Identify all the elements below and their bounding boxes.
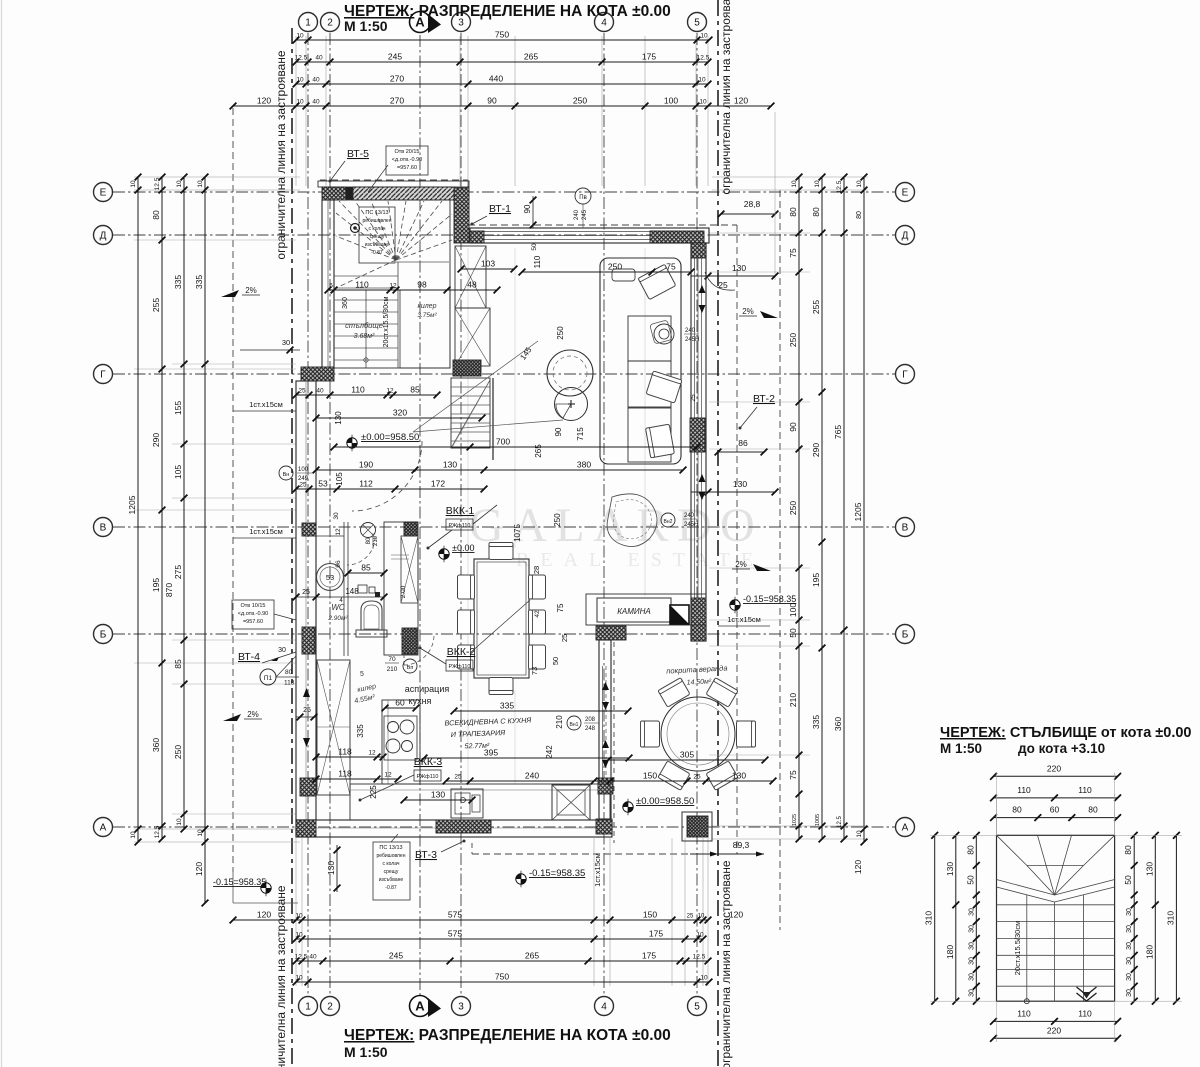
svg-text:1: 1	[305, 18, 311, 29]
svg-text:100: 100	[664, 96, 678, 106]
svg-text:25: 25	[560, 634, 569, 642]
piano shape	[607, 494, 657, 547]
vent circle Вн west	[279, 466, 312, 482]
stair detail walk circle	[1024, 999, 1029, 1004]
dim 395	[421, 748, 633, 762]
svg-text:10: 10	[130, 180, 137, 188]
svg-text:120: 120	[194, 862, 204, 876]
svg-text:М 1:50: М 1:50	[344, 1044, 388, 1060]
svg-text:110: 110	[533, 255, 542, 268]
label ВКК-2	[419, 600, 531, 671]
svg-text:<д.отв.-0.90: <д.отв.-0.90	[238, 611, 268, 617]
washbasin	[317, 564, 344, 591]
svg-text:90: 90	[554, 427, 563, 436]
svg-text:103: 103	[481, 259, 495, 269]
dim 60	[382, 698, 420, 712]
svg-text:210: 210	[373, 535, 379, 546]
fraction 70/210	[385, 656, 399, 673]
svg-text:245Н: 245Н	[684, 522, 698, 528]
svg-text:10: 10	[856, 180, 863, 188]
svg-text:255: 255	[151, 298, 161, 312]
svg-text:320: 320	[393, 408, 407, 418]
svg-text:Пв: Пв	[579, 195, 587, 201]
svg-text:750: 750	[495, 30, 509, 40]
svg-text:85: 85	[173, 659, 183, 669]
svg-text:190: 190	[359, 460, 373, 470]
dim 85	[345, 563, 388, 577]
projection lines	[413, 341, 563, 432]
svg-text:1025: 1025	[792, 814, 798, 826]
svg-text:50: 50	[551, 657, 560, 665]
svg-text:-0.15=958.35: -0.15=958.35	[743, 594, 796, 604]
svg-text:148: 148	[345, 587, 359, 596]
floor hatch box	[552, 785, 590, 820]
svg-text:до кота +3.10: до кота +3.10	[1018, 741, 1105, 756]
stair detail winder lines	[997, 835, 1115, 902]
svg-text:180: 180	[1144, 945, 1154, 959]
svg-text:245: 245	[388, 52, 402, 62]
svg-text:245: 245	[389, 951, 403, 961]
svg-text:28: 28	[532, 566, 541, 574]
dining chairs left	[458, 575, 475, 599]
svg-text:М 1:50: М 1:50	[344, 18, 388, 34]
stair detail outline	[997, 835, 1115, 1001]
elevation -0.15 bottom left	[213, 877, 271, 896]
kitchen counter west	[382, 700, 420, 784]
svg-text:250: 250	[573, 96, 587, 106]
svg-text:30: 30	[968, 989, 975, 997]
label 1st x15 left upper	[233, 400, 296, 411]
svg-text:3.68м²: 3.68м²	[354, 333, 375, 340]
svg-text:175: 175	[649, 929, 663, 939]
dim 130 bottom left vertical	[326, 845, 340, 892]
svg-text:10: 10	[295, 932, 303, 939]
svg-text:1ст.х15см: 1ст.х15см	[249, 527, 283, 536]
axis row А	[94, 818, 915, 837]
svg-text:40: 40	[312, 99, 320, 106]
veranda west pier	[598, 778, 613, 794]
vent dot stair	[351, 224, 360, 233]
svg-text:М 1:50: М 1:50	[940, 741, 982, 756]
extension lines right	[709, 177, 868, 839]
svg-text:5: 5	[360, 671, 364, 678]
dim 30 left axis G	[240, 338, 300, 353]
svg-text:335: 335	[811, 715, 821, 729]
svg-text:Вн: Вн	[283, 472, 290, 478]
svg-text:80: 80	[1088, 805, 1098, 815]
wall below fireplace	[596, 626, 626, 640]
svg-text:130: 130	[733, 479, 747, 489]
stair walk line	[364, 290, 368, 368]
section axis A line	[419, 35, 421, 995]
svg-text:12.5: 12.5	[295, 55, 308, 62]
label ВТ-1	[471, 203, 512, 226]
dimension row bottom 575-150	[230, 910, 744, 924]
extension lines left inner	[134, 240, 296, 814]
wall corner pier top	[454, 188, 469, 243]
svg-text:40: 40	[316, 388, 324, 395]
svg-text:85: 85	[361, 563, 371, 573]
elevation ±0.00=958.50 veranda	[623, 796, 695, 815]
svg-text:10: 10	[696, 932, 704, 939]
veranda west wall band	[599, 640, 611, 819]
wc unit shelves	[391, 555, 409, 559]
svg-text:3.75м²: 3.75м²	[417, 312, 437, 319]
svg-text:изсъбване: изсъбване	[379, 877, 404, 883]
svg-text:10: 10	[176, 818, 183, 826]
dining chairs right	[529, 575, 546, 599]
svg-text:210: 210	[387, 666, 398, 673]
fireplace circle big	[547, 350, 593, 396]
fireplace circle small	[555, 388, 588, 421]
svg-text:50: 50	[531, 243, 538, 251]
svg-text:250: 250	[788, 333, 798, 347]
svg-text:265: 265	[524, 52, 538, 62]
svg-text:изсъбване: изсъбване	[365, 242, 390, 248]
svg-text:Отв 10/15: Отв 10/15	[240, 603, 265, 609]
svg-text:210: 210	[788, 693, 798, 707]
svg-text:-0.15=958.35: -0.15=958.35	[213, 877, 266, 887]
slope 2% right upper	[739, 307, 778, 318]
svg-text:360: 360	[151, 738, 161, 752]
dim 25 west wall	[296, 707, 317, 720]
svg-text:1ст.х15см: 1ст.х15см	[727, 615, 761, 624]
svg-text:30: 30	[1126, 989, 1133, 997]
svg-text:110: 110	[355, 280, 369, 290]
svg-text:25: 25	[303, 707, 311, 714]
svg-text:20ст.х15.5/30см: 20ст.х15.5/30см	[383, 296, 390, 347]
svg-text:10: 10	[856, 830, 863, 838]
svg-text:ребишовлен: ребишовлен	[363, 218, 392, 224]
svg-text:110: 110	[1017, 785, 1031, 795]
svg-text:130: 130	[334, 411, 343, 425]
svg-text:10: 10	[197, 180, 204, 188]
svg-text:ограничителна линия на застроя: ограничителна линия на застрояване	[274, 50, 288, 260]
svg-text:305: 305	[680, 750, 694, 760]
svg-text:80: 80	[285, 669, 293, 676]
dimension row top 245-265-175	[293, 52, 712, 66]
svg-text:290: 290	[811, 443, 821, 457]
svg-text:50: 50	[1123, 875, 1133, 885]
svg-text:REAL ESTATE: REAL ESTATE	[516, 549, 764, 571]
svg-text:175: 175	[642, 52, 656, 62]
axis column 5	[688, 13, 707, 1016]
svg-text:750: 750	[495, 972, 509, 982]
svg-text:150: 150	[643, 771, 657, 781]
wall east band	[691, 243, 706, 641]
axis row Г	[94, 365, 915, 384]
svg-text:110: 110	[351, 385, 365, 395]
svg-text:73: 73	[530, 667, 539, 675]
fraction 80/210 wc door	[366, 533, 379, 549]
dim 118-12 lower	[313, 769, 402, 783]
svg-text:248: 248	[585, 726, 596, 732]
svg-text:12: 12	[384, 772, 392, 779]
svg-text:ребишовлен: ребишовлен	[377, 853, 406, 859]
svg-text:110: 110	[1078, 785, 1092, 795]
armchair 1	[638, 264, 676, 299]
note box ПС 13/13 top	[359, 207, 395, 263]
svg-text:80: 80	[366, 537, 372, 544]
label килер 4.55	[354, 671, 377, 705]
svg-text:30: 30	[1126, 942, 1133, 950]
svg-text:240: 240	[685, 328, 696, 334]
wall south band	[296, 820, 612, 837]
svg-text:60: 60	[1050, 805, 1060, 815]
svg-text:±0.00=958.50: ±0.00=958.50	[636, 796, 694, 807]
svg-text:120: 120	[729, 910, 743, 920]
svg-text:Б: Б	[902, 630, 909, 641]
svg-text:765: 765	[833, 425, 843, 439]
extension lines left	[134, 177, 300, 842]
closet килер 3.75	[400, 290, 450, 368]
svg-text:3: 3	[458, 1002, 464, 1013]
dining chair top	[489, 543, 513, 560]
svg-text:70: 70	[388, 656, 396, 663]
dim stair top row	[325, 280, 501, 294]
svg-text:10: 10	[197, 829, 204, 837]
svg-text:220: 220	[1047, 1026, 1061, 1036]
svg-text:Отв 20/15: Отв 20/15	[394, 149, 419, 155]
svg-text:2: 2	[327, 1002, 333, 1013]
svg-text:2.90м²: 2.90м²	[327, 615, 348, 622]
svg-text:80: 80	[788, 207, 798, 217]
svg-text:4: 4	[601, 1002, 607, 1013]
svg-text:100: 100	[788, 603, 798, 617]
stair winder fan	[336, 201, 452, 288]
svg-text:10: 10	[700, 975, 708, 982]
svg-text:150: 150	[643, 910, 657, 920]
leader 25 top right	[705, 272, 735, 290]
svg-text:30: 30	[1126, 957, 1133, 965]
svg-text:стълбище: стълбище	[345, 321, 383, 330]
wall west pier 1	[302, 523, 316, 536]
label ВТ-5	[329, 148, 370, 183]
svg-text:275: 275	[173, 565, 183, 579]
handrail line	[492, 378, 494, 460]
svg-text:В: В	[100, 523, 107, 534]
veranda chairs	[641, 678, 756, 791]
svg-text:240: 240	[574, 209, 580, 220]
dim 90 vertical top	[523, 196, 536, 228]
wall south pier right	[596, 819, 612, 834]
dim 28,8 top right	[718, 112, 779, 280]
svg-text:1ст.х15см: 1ст.х15см	[593, 853, 602, 887]
kitchen tall cabinet 1	[455, 246, 486, 308]
vent circle living	[661, 513, 698, 528]
vent circle Вн1	[567, 716, 599, 732]
dim 25-240-150-25-130	[443, 771, 777, 785]
svg-text:240: 240	[684, 513, 695, 519]
svg-text:53: 53	[318, 479, 328, 489]
svg-text:1075: 1075	[513, 524, 522, 542]
setback corner lines bottom left	[233, 872, 298, 903]
svg-text:А: А	[100, 823, 107, 834]
svg-text:250: 250	[553, 513, 562, 527]
svg-text:25: 25	[299, 482, 307, 489]
svg-text:12.5: 12.5	[295, 954, 308, 961]
stair dim 220 bottom	[990, 1026, 1121, 1042]
svg-text:335: 335	[500, 701, 514, 711]
dim 86 right	[715, 438, 768, 455]
axis row В	[94, 518, 915, 537]
svg-text:ограничителна линия на застроя: ограничителна линия на застрояване	[719, 860, 733, 1067]
svg-text:75: 75	[556, 603, 565, 612]
axis column 4	[595, 13, 614, 1016]
toilet	[356, 601, 387, 637]
wall south pier left	[296, 820, 316, 837]
dimension chain right 765-360	[833, 174, 847, 843]
svg-text:срещу: срещу	[370, 234, 385, 240]
svg-text:1005: 1005	[815, 814, 821, 826]
stair dim 310 right	[1165, 832, 1179, 1005]
svg-text:КАМИНА: КАМИНА	[617, 607, 651, 616]
svg-text:2.00: 2.00	[400, 585, 407, 598]
dimension row top 750	[293, 30, 713, 44]
dim 190-130-380	[313, 460, 687, 474]
svg-text:120: 120	[257, 910, 271, 920]
fireplace wall КАМИНА	[586, 594, 706, 625]
svg-text:240: 240	[525, 771, 539, 781]
stove	[384, 716, 417, 760]
svg-text:12.5: 12.5	[836, 180, 843, 193]
svg-text:30: 30	[968, 973, 975, 981]
armchair 2	[646, 371, 682, 403]
vent circle Пв top	[574, 188, 591, 228]
wall stair room west	[322, 200, 334, 368]
stair detail treads	[997, 895, 1115, 1001]
svg-text:245Н: 245Н	[685, 337, 699, 343]
dim texts vertical group1	[333, 243, 585, 799]
svg-text:ВТ-2: ВТ-2	[753, 393, 775, 405]
svg-text:48: 48	[467, 280, 477, 290]
wall living top band	[470, 228, 709, 243]
svg-text:10: 10	[698, 77, 706, 84]
svg-text:Е: Е	[902, 188, 909, 199]
svg-text:242: 242	[545, 745, 554, 759]
svg-text:175: 175	[642, 951, 656, 961]
svg-text:110: 110	[1078, 1009, 1092, 1019]
svg-text:с колач: с колач	[369, 226, 386, 232]
svg-text:2%: 2%	[245, 286, 257, 295]
svg-text:10: 10	[296, 33, 304, 40]
svg-text:195: 195	[151, 578, 161, 592]
svg-text:12: 12	[368, 750, 376, 757]
svg-text:105: 105	[173, 465, 183, 479]
dim 130 vkk3	[401, 790, 476, 804]
dimension chain left 335-155-105-275-85-250	[173, 174, 187, 833]
svg-text:40: 40	[312, 77, 320, 84]
dining chair bottom	[489, 678, 513, 695]
dimension row bottom 575-175	[293, 929, 707, 943]
svg-text:30: 30	[1126, 973, 1133, 981]
stair dim treads left	[965, 832, 979, 1005]
svg-text:100: 100	[298, 467, 309, 473]
svg-text:12: 12	[335, 528, 342, 536]
svg-text:2%: 2%	[247, 710, 259, 719]
svg-text:Б: Б	[100, 630, 107, 641]
svg-text:Е: Е	[100, 188, 107, 199]
svg-text:=957.60: =957.60	[243, 619, 263, 625]
stair flight treads	[334, 262, 449, 368]
svg-text:50: 50	[965, 875, 975, 885]
wc unit pier bottom	[402, 628, 417, 654]
note box ПС 13/13 bottom	[373, 834, 410, 900]
sofa side table	[612, 269, 635, 281]
svg-text:96: 96	[335, 560, 342, 568]
svg-text:Г: Г	[902, 370, 908, 381]
svg-text:30: 30	[968, 925, 975, 933]
svg-text:130: 130	[326, 861, 336, 875]
label WC	[327, 603, 348, 622]
svg-text:WC: WC	[331, 603, 345, 612]
svg-text:1ст.х15см: 1ст.х15см	[249, 400, 283, 409]
stair flight 2	[451, 378, 490, 448]
svg-text:-0.87: -0.87	[385, 885, 397, 891]
scan edge line	[1, 0, 3, 1067]
svg-text:575: 575	[448, 910, 462, 920]
svg-text:75: 75	[788, 248, 798, 258]
kitchen door arc	[352, 441, 422, 511]
vent circle sofa	[650, 320, 700, 344]
svg-text:<д.отв.-0.90: <д.отв.-0.90	[392, 157, 422, 163]
svg-text:360: 360	[833, 717, 843, 731]
veranda column	[682, 812, 712, 841]
kitchen counter south	[350, 784, 610, 820]
svg-text:40: 40	[309, 954, 317, 961]
dimension row bottom 245-265-175	[293, 951, 712, 965]
svg-text:75: 75	[788, 770, 798, 780]
svg-text:270: 270	[390, 96, 404, 106]
svg-text:380: 380	[577, 460, 591, 470]
svg-text:80: 80	[856, 211, 863, 219]
wall west arrows	[303, 688, 310, 747]
svg-text:-0.87: -0.87	[371, 250, 383, 256]
dimension chain left 80-255-290-195-360	[151, 174, 165, 843]
svg-text:80: 80	[965, 845, 975, 855]
svg-text:20ст.х15.5/30см: 20ст.х15.5/30см	[1013, 921, 1022, 975]
stair dim 220 top	[990, 764, 1121, 780]
svg-text:28,8: 28,8	[744, 199, 761, 209]
dim stair bottom row	[293, 385, 441, 399]
wall living top pier	[650, 231, 704, 243]
svg-text:90: 90	[788, 422, 798, 432]
dim 320	[313, 408, 486, 422]
svg-text:80: 80	[1123, 845, 1133, 855]
veranda table	[661, 697, 735, 771]
svg-text:2%: 2%	[735, 560, 747, 569]
svg-text:208: 208	[585, 717, 596, 723]
svg-text:ЧЕРТЕЖ: РАЗПРЕДЕЛЕНИЕ НА КОТА: ЧЕРТЕЖ: РАЗПРЕДЕЛЕНИЕ НА КОТА ±0.00	[344, 3, 671, 20]
note box Отв 20/15	[368, 146, 428, 192]
svg-text:25: 25	[690, 394, 697, 402]
svg-text:42: 42	[534, 610, 541, 618]
svg-text:120: 120	[734, 96, 748, 106]
svg-text:130: 130	[1144, 862, 1154, 876]
svg-text:60: 60	[395, 698, 405, 708]
svg-text:25: 25	[718, 280, 728, 290]
wall outer band top	[318, 181, 469, 187]
label ВКК-1	[427, 505, 498, 550]
label стълбище	[345, 321, 383, 340]
wc unit pier top	[404, 522, 417, 536]
svg-text:аспирация: аспирация	[405, 684, 450, 694]
svg-text:89,3: 89,3	[733, 840, 750, 850]
dim 250-75	[519, 262, 695, 276]
window block west at axis G	[301, 367, 334, 381]
svg-text:290: 290	[151, 433, 161, 447]
svg-text:А: А	[415, 999, 425, 1014]
